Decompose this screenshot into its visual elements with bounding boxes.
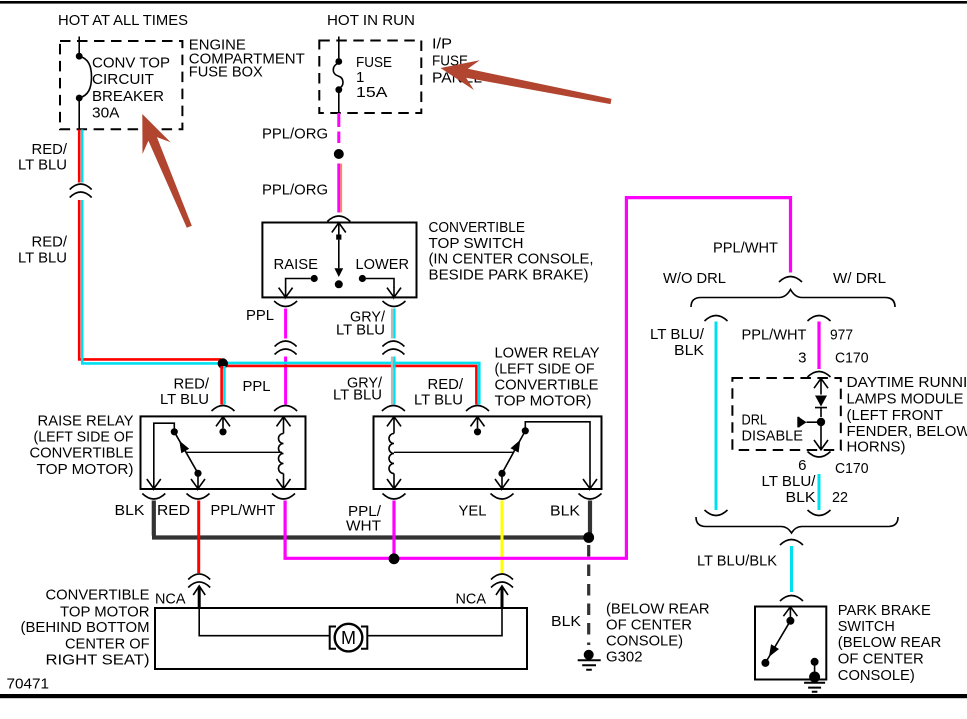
svg-text:PPL/WHT: PPL/WHT [713, 240, 778, 257]
inline connector on GRY/LT BLU [382, 341, 404, 355]
connector cups below lower relay [383, 494, 406, 500]
raise relay coil L1 [277, 417, 291, 434]
raise relay armature arrowhead [179, 441, 189, 454]
wire stub above fuse [338, 37, 340, 42]
svg-text:PPL/WHT: PPL/WHT [742, 327, 807, 344]
svg-text:70471: 70471 [7, 676, 50, 693]
svg-text:CONVERTIBLE: CONVERTIBLE [429, 219, 526, 236]
LOWER output arrow [387, 287, 401, 297]
svg-text:LT BLU: LT BLU [414, 392, 463, 409]
wire PPL upper segment [284, 309, 287, 339]
svg-text:DRL: DRL [742, 412, 768, 429]
fuse box (I/P fuse panel) [319, 41, 421, 114]
inline connector on PPL [275, 341, 297, 355]
raise relay upper contact node [171, 428, 178, 435]
svg-text:LT BLU: LT BLU [333, 387, 382, 404]
callout arrow 2 (at I/P fuse panel) [441, 60, 612, 104]
park brake switch feed arrow [783, 607, 797, 617]
svg-text:(LEFT SIDE OF: (LEFT SIDE OF [495, 361, 595, 378]
svg-text:LT BLU/BLK: LT BLU/BLK [697, 553, 777, 570]
DRL module feed arrow [814, 379, 828, 395]
DRL disable node [817, 418, 825, 426]
svg-text:WHT: WHT [346, 518, 381, 535]
motor inner wiring [199, 608, 502, 636]
wire PPL/WHT 977 (W/ DRL branch) [817, 322, 820, 370]
wire YEL from lower relay to motor [501, 501, 504, 574]
svg-text:W/ DRL: W/ DRL [833, 270, 886, 287]
connector cap W/O DRL branch [705, 316, 728, 322]
DRL module output stem and arrow [814, 425, 828, 449]
svg-text:DISABLE: DISABLE [742, 428, 804, 445]
svg-text:LT BLU/: LT BLU/ [762, 473, 817, 490]
svg-text:30A: 30A [92, 105, 120, 122]
raise relay lower contact to output arrow [191, 473, 205, 488]
wire RED/LT BLU branch down to raise relay [220, 366, 223, 405]
svg-text:977: 977 [830, 327, 853, 344]
svg-text:LT BLU: LT BLU [160, 391, 209, 408]
raise relay mechanical link line [186, 451, 282, 453]
svg-text:I/P: I/P [432, 36, 452, 53]
ground at park brake switch [809, 672, 820, 683]
wire BLK from lower relay down to bus node [588, 501, 592, 538]
RAISE output arrow [279, 287, 293, 297]
lower relay upper contact node [522, 427, 529, 434]
svg-text:LAMPS MODULE: LAMPS MODULE [847, 390, 964, 407]
wire stub above breaker [78, 37, 80, 42]
wire BLK dashed to G302 [587, 545, 590, 645]
park brake switch arm arrowhead [769, 644, 779, 657]
lower relay lower contact node [498, 470, 505, 477]
connector cap into park brake switch [780, 596, 803, 602]
wire BLK from raise relay to ground bus [152, 501, 588, 538]
wire PPL/ORG orange stripe [340, 164, 342, 213]
svg-text:PPL/ORG: PPL/ORG [262, 182, 328, 199]
svg-text:PARK BRAKE: PARK BRAKE [838, 602, 931, 619]
connector cup below switch (GRY/LT BLU) [383, 301, 406, 307]
svg-text:3: 3 [798, 350, 806, 367]
connector cap at DRL branch [779, 277, 802, 283]
wire PPL/ORG lower magenta [337, 164, 340, 213]
svg-text:BESIDE PARK BRAKE): BESIDE PARK BRAKE) [429, 267, 589, 284]
svg-text:LOWER RELAY: LOWER RELAY [495, 345, 600, 362]
wire RED/LT BLU from breaker (vertical riser) red stripe [79, 130, 221, 361]
svg-text:C170: C170 [835, 350, 869, 367]
svg-text:(BELOW REAR: (BELOW REAR [838, 634, 942, 651]
wire RED/LT BLU horizontal right of node: cyan stripe [224, 363, 479, 405]
convertible top switch box [262, 223, 416, 298]
motor M1 symbol brackets [330, 627, 368, 649]
svg-text:HOT IN RUN: HOT IN RUN [327, 12, 415, 29]
motor M1 circle [335, 624, 363, 652]
svg-text:OF CENTER: OF CENTER [838, 651, 924, 668]
convertible top motor box [155, 608, 527, 669]
svg-text:RAISE: RAISE [274, 256, 319, 273]
svg-text:SWITCH: SWITCH [838, 618, 895, 635]
LOWER contact wire to output [366, 279, 394, 288]
wire GRY/LT BLU cyan stripe upper [393, 309, 395, 339]
svg-text:PPL/ORG: PPL/ORG [262, 126, 328, 143]
NCA stub into motor right [501, 588, 504, 609]
top border [0, 1, 967, 4]
lower relay right output arrow [583, 478, 597, 489]
merge brace [696, 517, 898, 533]
switch wiper arrowhead [334, 268, 343, 277]
wire LT BLU/BLK 22 [818, 474, 821, 510]
wire GRY/LT BLU grey stripe upper [391, 309, 393, 339]
svg-text:(LEFT SIDE OF: (LEFT SIDE OF [34, 429, 134, 446]
svg-text:LT BLU/: LT BLU/ [650, 326, 705, 343]
svg-text:HOT AT ALL TIMES: HOT AT ALL TIMES [58, 12, 188, 29]
svg-text:BLK: BLK [551, 613, 581, 630]
svg-text:CONV TOP: CONV TOP [92, 55, 170, 72]
junction node RED/LT BLU [218, 358, 228, 368]
svg-text:RED/: RED/ [32, 234, 68, 251]
switch feed square node [336, 235, 341, 240]
svg-text:G302: G302 [606, 649, 643, 666]
svg-text:W/O DRL: W/O DRL [663, 270, 726, 287]
connector cap into DRL module [808, 372, 831, 378]
switch common stem [338, 240, 340, 269]
callout arrow 1 (at circuit breaker) [142, 114, 192, 228]
svg-text:PPL: PPL [243, 378, 271, 395]
splice node on PPL/ORG [334, 149, 344, 159]
wire PPL/WHT from lower relay to bus [392, 501, 395, 559]
svg-text:BLK: BLK [674, 342, 704, 359]
fuse F1 15A symbol [338, 41, 340, 59]
wire GRY/LT BLU grey stripe lower [391, 357, 393, 405]
switch common node [335, 280, 343, 288]
svg-text:TOP SWITCH: TOP SWITCH [429, 235, 524, 252]
DRL module box [732, 378, 840, 450]
svg-text:RED: RED [157, 502, 190, 519]
svg-text:15A: 15A [356, 84, 388, 101]
junction node PPL/WHT bus [389, 553, 400, 564]
bottom border [0, 694, 967, 698]
svg-text:NCA: NCA [155, 591, 186, 608]
svg-text:BLK: BLK [115, 502, 145, 519]
raise relay armature (diagonal) [174, 432, 198, 474]
RAISE contact wire to output [286, 279, 311, 288]
park brake switch box [755, 607, 826, 680]
inline connector on RED at motor (NCA) [188, 574, 210, 588]
lower relay K2 box [374, 416, 602, 489]
lower relay armature (diagonal) [502, 431, 525, 474]
svg-text:BREAKER: BREAKER [92, 88, 164, 105]
wire LT BLU/BLK (W/O DRL branch) [715, 322, 718, 511]
svg-text:(IN CENTER CONSOLE,: (IN CENTER CONSOLE, [429, 251, 594, 268]
svg-text:C170: C170 [835, 460, 869, 477]
diode CR1 [815, 396, 827, 407]
lower relay middle feed arrow and node [471, 417, 485, 429]
raise relay switch frame line [154, 423, 175, 479]
svg-text:LT BLU: LT BLU [336, 322, 385, 339]
svg-text:YEL: YEL [459, 503, 487, 520]
svg-text:RED/: RED/ [174, 376, 210, 393]
junction node BLK bus [583, 532, 594, 543]
connector cups onto merge brace [705, 510, 728, 516]
svg-text:LT BLU: LT BLU [18, 157, 67, 174]
svg-text:RED/: RED/ [428, 376, 464, 393]
raise relay switch left down arrow [147, 478, 161, 489]
ground G302 symbol [584, 650, 594, 660]
svg-text:22: 22 [832, 489, 848, 506]
brace (branch split) [691, 290, 895, 308]
connector cap below merge [780, 540, 803, 546]
svg-text:TOP MOTOR): TOP MOTOR) [495, 392, 592, 409]
inline connector on RED/LT BLU riser [70, 184, 92, 198]
svg-text:TOP MOTOR): TOP MOTOR) [37, 461, 134, 478]
svg-text:CONVERTIBLE: CONVERTIBLE [46, 587, 150, 604]
LOWER contact node [359, 275, 366, 282]
inline connector on YEL at motor (NCA) [491, 574, 513, 588]
svg-text:(BEHIND BOTTOM: (BEHIND BOTTOM [21, 619, 150, 636]
svg-text:LT BLU: LT BLU [18, 250, 67, 267]
svg-text:CENTER OF: CENTER OF [65, 636, 150, 653]
svg-text:TOP MOTOR: TOP MOTOR [60, 604, 150, 621]
connector cup below switch (PPL) [274, 301, 297, 307]
wire PPL lower segment [284, 357, 287, 405]
svg-text:PPL: PPL [246, 307, 274, 324]
lower relay armature arrowhead [511, 440, 521, 453]
svg-text:RIGHT SEAT): RIGHT SEAT) [46, 652, 150, 669]
circuit breaker CB 30A symbol [78, 41, 80, 53]
wire LT BLU/BLK to park brake switch [790, 546, 793, 592]
connector cap into switch [327, 216, 350, 222]
wire PPL/WHT bus from raise relay to DRL branch [285, 198, 790, 559]
wire RED/LT BLU horizontal right of node: red stripe [224, 366, 476, 405]
RAISE contact node [311, 275, 318, 282]
connector cups below raise relay [142, 494, 165, 500]
svg-text:BLK: BLK [550, 503, 580, 520]
lower relay coil L2 [387, 417, 401, 434]
svg-text:CONVERTIBLE: CONVERTIBLE [30, 445, 134, 462]
connector cap W/ DRL branch [808, 316, 831, 322]
svg-text:HORNS): HORNS) [847, 438, 906, 455]
svg-text:RED/: RED/ [32, 141, 68, 158]
svg-text:NCA: NCA [456, 591, 487, 608]
svg-text:(LEFT FRONT: (LEFT FRONT [847, 407, 944, 424]
DRL disable input arrow [797, 417, 799, 428]
park brake switch upper node [786, 617, 794, 625]
lower relay mechanical link line [394, 451, 514, 453]
raise relay lower contact node [194, 470, 201, 477]
svg-text:(BELOW REAR: (BELOW REAR [606, 601, 710, 618]
svg-text:M: M [341, 628, 356, 648]
svg-text:RAISE RELAY: RAISE RELAY [38, 413, 134, 430]
connector cup below DRL module [808, 452, 831, 458]
svg-text:CONSOLE): CONSOLE) [838, 667, 915, 684]
svg-text:LOWER: LOWER [356, 256, 410, 273]
wire RED/LT BLU riser lt-blue stripe [81, 130, 221, 364]
raise relay middle feed arrow and node [216, 417, 230, 429]
svg-text:OF CENTER: OF CENTER [606, 617, 692, 634]
wire RED from raise relay to motor [197, 501, 200, 574]
circuit breaker box (engine compartment fuse box) [60, 41, 182, 129]
raise relay K1 box [141, 416, 306, 489]
park brake switch ground contact [811, 658, 819, 666]
svg-text:FUSE BOX: FUSE BOX [189, 64, 263, 81]
svg-text:CONVERTIBLE: CONVERTIBLE [495, 377, 599, 394]
svg-text:FENDER, BELOW: FENDER, BELOW [847, 423, 967, 440]
svg-text:CONSOLE): CONSOLE) [606, 633, 683, 650]
svg-text:DAYTIME RUNNING: DAYTIME RUNNING [847, 374, 967, 391]
connector caps above raise relay [212, 406, 235, 412]
wire PPL/ORG from fuse (dashed top) [337, 113, 340, 143]
svg-text:CIRCUIT: CIRCUIT [92, 71, 154, 88]
park brake switch lower node [761, 659, 769, 667]
NCA stub into motor left [198, 588, 201, 609]
park brake switch arm [765, 621, 790, 663]
lower relay contact frame to right output [525, 422, 590, 478]
svg-text:BLK: BLK [786, 489, 816, 506]
wire GRY/LT BLU cyan stripe lower [393, 357, 395, 405]
lower relay contact to output arrow [495, 473, 509, 488]
switch feed arrow [332, 223, 346, 235]
wire GRY/LT BLU overlay at crossing [391, 361, 393, 370]
svg-text:6: 6 [798, 457, 806, 474]
svg-text:PPL/WHT: PPL/WHT [211, 502, 276, 519]
connector caps above lower relay [382, 406, 405, 412]
